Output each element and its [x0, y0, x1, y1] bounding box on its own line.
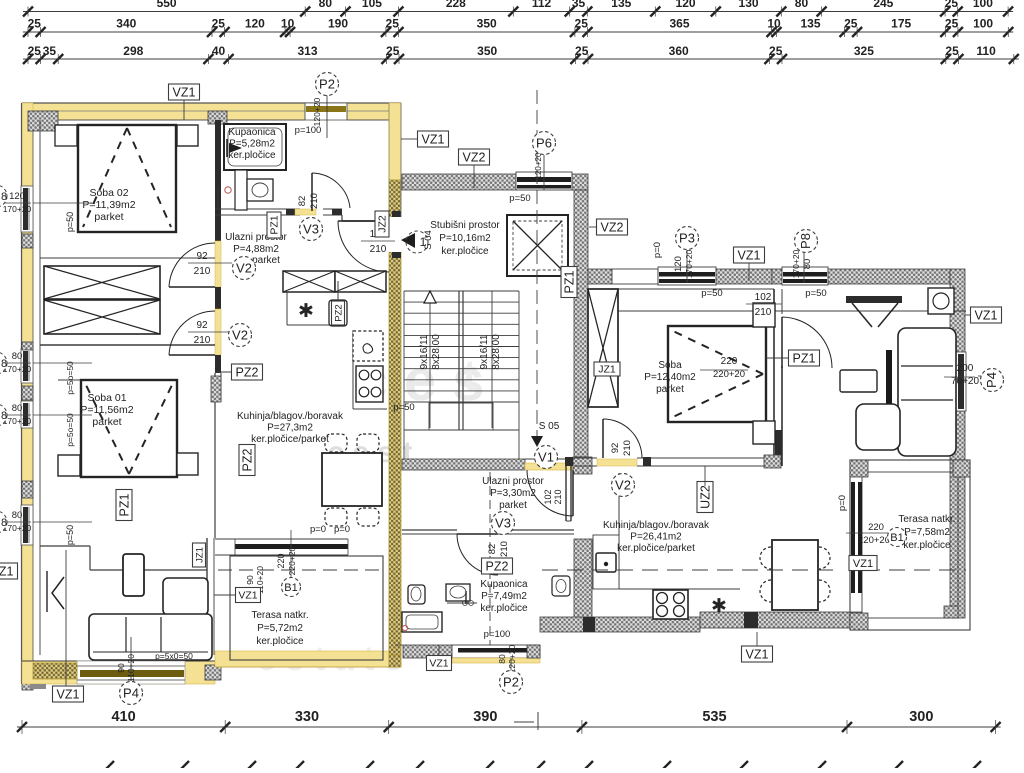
- svg-text:102: 102: [755, 292, 772, 303]
- svg-text:190: 190: [328, 17, 348, 31]
- svg-text:360: 360: [669, 44, 689, 58]
- svg-text:ker.pločice/parket: ker.pločice/parket: [251, 434, 329, 445]
- svg-text:210: 210: [370, 244, 387, 255]
- svg-text:120+20: 120+20: [312, 97, 322, 126]
- svg-text:VZ2: VZ2: [601, 220, 624, 234]
- svg-text:9x16/11: 9x16/11: [419, 334, 430, 369]
- svg-text:P=5,28m2: P=5,28m2: [229, 139, 275, 150]
- svg-text:135: 135: [800, 17, 820, 31]
- svg-text:VZ1: VZ1: [238, 590, 257, 602]
- svg-text:112: 112: [532, 0, 552, 10]
- svg-text:100: 100: [973, 0, 993, 10]
- svg-text:Kuhinja/blagov./boravak: Kuhinja/blagov./boravak: [603, 520, 710, 531]
- svg-text:8x28,00: 8x28,00: [491, 334, 502, 370]
- svg-text:JZ1: JZ1: [598, 364, 616, 376]
- svg-text:8: 8: [1, 191, 7, 203]
- svg-text:90: 90: [116, 663, 126, 673]
- svg-text:Soba: Soba: [658, 360, 682, 371]
- svg-text:8: 8: [1, 410, 7, 422]
- svg-text:8: 8: [1, 358, 7, 370]
- svg-text:ker.pločice: ker.pločice: [903, 540, 951, 551]
- svg-text:parket: parket: [92, 416, 121, 428]
- svg-text:130: 130: [739, 0, 759, 10]
- svg-text:P=12,40m2: P=12,40m2: [644, 372, 696, 383]
- svg-text:210: 210: [194, 266, 211, 277]
- svg-text:Terasa natkr.: Terasa natkr.: [898, 514, 955, 525]
- svg-text:120: 120: [673, 256, 684, 272]
- svg-text:t: t: [463, 351, 478, 400]
- svg-text:92: 92: [196, 320, 208, 331]
- svg-text:170+20: 170+20: [791, 249, 801, 278]
- svg-text:P2: P2: [319, 77, 335, 92]
- svg-text:350: 350: [477, 44, 497, 58]
- svg-text:120+20: 120+20: [507, 644, 517, 673]
- svg-text:PZ1: PZ1: [269, 215, 281, 234]
- svg-text:P4: P4: [123, 686, 139, 701]
- svg-text:V2: V2: [232, 328, 248, 343]
- svg-text:228: 228: [446, 0, 466, 10]
- svg-text:P=4,88m2: P=4,88m2: [233, 244, 279, 255]
- svg-text:82: 82: [297, 196, 308, 207]
- svg-text:120: 120: [676, 0, 696, 10]
- svg-text:P=3,30m2: P=3,30m2: [490, 488, 536, 499]
- svg-text:VZ1: VZ1: [57, 687, 80, 701]
- svg-text:8x28,00: 8x28,00: [431, 334, 442, 370]
- svg-text:298: 298: [123, 44, 143, 58]
- svg-text:100: 100: [973, 17, 993, 31]
- svg-text:25: 25: [212, 17, 226, 31]
- svg-text:80: 80: [497, 654, 507, 664]
- svg-text:390: 390: [473, 709, 497, 725]
- svg-text:210: 210: [553, 489, 563, 504]
- svg-text:parket: parket: [499, 500, 527, 511]
- svg-text:P=5,72m2: P=5,72m2: [257, 623, 303, 634]
- svg-text:90: 90: [245, 575, 255, 585]
- svg-text:Stubišni prostor: Stubišni prostor: [430, 220, 500, 231]
- svg-text:Kupaonica: Kupaonica: [480, 579, 528, 590]
- svg-text:ker.pločice: ker.pločice: [441, 246, 489, 257]
- svg-text:P2: P2: [503, 675, 519, 690]
- svg-text:35: 35: [572, 0, 586, 10]
- svg-text:VZ1: VZ1: [738, 248, 761, 262]
- svg-text:P=7,58m2: P=7,58m2: [904, 527, 950, 538]
- svg-text:✱: ✱: [298, 301, 314, 322]
- svg-text:120: 120: [9, 191, 25, 202]
- svg-text:35: 35: [43, 44, 57, 58]
- svg-text:ker.pločice: ker.pločice: [480, 603, 528, 614]
- svg-text:P=26,41m2: P=26,41m2: [630, 532, 682, 543]
- svg-text:✱: ✱: [711, 596, 727, 617]
- svg-text:170+20: 170+20: [3, 204, 32, 214]
- svg-text:220: 220: [276, 553, 286, 568]
- svg-text:p=50: p=50: [509, 193, 530, 204]
- svg-text:P=7,49m2: P=7,49m2: [481, 591, 527, 602]
- svg-text:25: 25: [386, 44, 400, 58]
- svg-text:PZ2: PZ2: [240, 448, 254, 471]
- svg-text:P=11,39m2: P=11,39m2: [82, 199, 135, 211]
- svg-text:P=27,3m2: P=27,3m2: [267, 423, 313, 434]
- svg-text:B1: B1: [284, 582, 297, 594]
- svg-text:10: 10: [767, 17, 781, 31]
- svg-text:Kupaonica: Kupaonica: [228, 127, 276, 138]
- svg-text:200: 200: [957, 363, 974, 374]
- svg-text:V3: V3: [303, 222, 319, 237]
- svg-text:VZ1: VZ1: [173, 85, 196, 99]
- svg-text:210: 210: [755, 307, 772, 318]
- svg-text:8: 8: [1, 517, 7, 529]
- svg-text:PZ2: PZ2: [486, 559, 509, 573]
- svg-text:Kuhinja/blagov./boravak: Kuhinja/blagov./boravak: [237, 411, 344, 422]
- svg-text:p=0: p=0: [334, 524, 350, 535]
- svg-text:80: 80: [319, 0, 333, 10]
- svg-text:P4: P4: [984, 372, 999, 388]
- svg-text:210: 210: [499, 541, 510, 557]
- svg-text:25: 25: [945, 17, 959, 31]
- svg-text:PZ2: PZ2: [333, 304, 344, 321]
- svg-text:VZ1: VZ1: [0, 564, 14, 578]
- svg-text:p=5o=50: p=5o=50: [65, 361, 75, 395]
- svg-text:S 05: S 05: [539, 421, 560, 432]
- svg-text:JZ2: JZ2: [377, 215, 389, 233]
- svg-text:25: 25: [575, 44, 589, 58]
- svg-text:40: 40: [212, 44, 226, 58]
- svg-text:parket: parket: [94, 211, 123, 223]
- svg-text:10: 10: [281, 17, 295, 31]
- svg-text:V1: V1: [538, 450, 554, 465]
- svg-text:S 04: S 04: [423, 230, 434, 250]
- svg-text:VZ1: VZ1: [853, 558, 873, 570]
- svg-text:ker.pločice: ker.pločice: [228, 150, 276, 161]
- svg-text:110: 110: [976, 44, 996, 58]
- svg-text:70+20: 70+20: [951, 376, 980, 387]
- svg-text:550: 550: [157, 0, 177, 10]
- svg-text:VZ1: VZ1: [422, 132, 445, 146]
- svg-text:102: 102: [543, 489, 553, 504]
- svg-text:220: 220: [721, 356, 738, 367]
- svg-text:25: 25: [769, 44, 783, 58]
- svg-text:365: 365: [669, 17, 689, 31]
- svg-text:Terasa natkr.: Terasa natkr.: [251, 610, 308, 621]
- svg-text:80: 80: [12, 351, 23, 362]
- svg-text:80: 80: [12, 510, 23, 521]
- svg-text:P6: P6: [536, 136, 552, 151]
- svg-text:p=50: p=50: [701, 288, 722, 299]
- svg-text:PZ1: PZ1: [562, 270, 576, 293]
- svg-text:p=5o=50: p=5o=50: [65, 413, 75, 447]
- svg-text:ker.pločice/parket: ker.pločice/parket: [617, 543, 695, 554]
- svg-text:P=11,56m2: P=11,56m2: [80, 404, 133, 416]
- svg-text:VZ1: VZ1: [746, 647, 769, 661]
- svg-text:VZ2: VZ2: [463, 150, 486, 164]
- svg-text:p=100: p=100: [484, 629, 511, 640]
- svg-text:82: 82: [487, 544, 498, 555]
- svg-text:P8: P8: [798, 233, 813, 249]
- svg-text:p=0: p=0: [652, 242, 663, 258]
- svg-text:p=50: p=50: [65, 525, 75, 545]
- svg-text:p=50: p=50: [805, 288, 826, 299]
- svg-text:330: 330: [295, 709, 319, 725]
- svg-text:V2: V2: [615, 478, 631, 493]
- svg-text:535: 535: [702, 709, 726, 725]
- svg-text:245: 245: [873, 0, 893, 10]
- svg-text:25: 25: [575, 17, 589, 31]
- svg-text:120+20: 120+20: [534, 152, 543, 179]
- svg-text:105: 105: [362, 0, 382, 10]
- svg-text:92: 92: [610, 443, 621, 454]
- svg-text:25: 25: [386, 17, 400, 31]
- svg-text:P3: P3: [679, 231, 695, 246]
- svg-text:VZ1: VZ1: [429, 658, 448, 670]
- svg-text:p=50: p=50: [393, 402, 414, 413]
- svg-text:210: 210: [622, 440, 633, 456]
- svg-text:V2: V2: [236, 261, 252, 276]
- svg-text:210: 210: [309, 193, 320, 209]
- svg-text:VZ1: VZ1: [975, 308, 998, 322]
- svg-text:210: 210: [194, 335, 211, 346]
- svg-text:Soba 02: Soba 02: [89, 187, 128, 199]
- svg-text:25: 25: [945, 0, 959, 10]
- svg-text:313: 313: [297, 44, 317, 58]
- svg-text:B1: B1: [890, 532, 903, 544]
- svg-text:JZ1: JZ1: [194, 547, 205, 563]
- svg-text:PZ2: PZ2: [236, 365, 259, 379]
- svg-text:25: 25: [945, 44, 959, 58]
- svg-text:350: 350: [477, 17, 497, 31]
- svg-text:parket: parket: [656, 384, 684, 395]
- svg-text:9x16/11: 9x16/11: [479, 334, 490, 369]
- svg-text:220+20: 220+20: [858, 535, 890, 546]
- svg-text:92: 92: [196, 251, 208, 262]
- svg-text:220+20: 220+20: [713, 369, 745, 380]
- svg-text:p=0: p=0: [837, 495, 848, 511]
- svg-text:300: 300: [909, 709, 933, 725]
- svg-text:410: 410: [111, 709, 135, 725]
- svg-text:PZ1: PZ1: [117, 493, 131, 516]
- svg-text:170+20: 170+20: [684, 249, 694, 278]
- svg-text:UZ2: UZ2: [698, 485, 712, 509]
- svg-text:p=0: p=0: [310, 524, 326, 535]
- svg-text:80: 80: [795, 0, 809, 10]
- svg-text:25: 25: [844, 17, 858, 31]
- svg-text:PZ1: PZ1: [793, 351, 816, 365]
- svg-text:ker.pločice: ker.pločice: [256, 636, 304, 647]
- svg-text:25: 25: [28, 44, 42, 58]
- svg-text:325: 325: [854, 44, 874, 58]
- svg-text:parket: parket: [252, 255, 280, 266]
- svg-text:p=5x0=50: p=5x0=50: [155, 651, 193, 661]
- svg-text:Ulazni prostor: Ulazni prostor: [482, 476, 544, 487]
- svg-text:120: 120: [245, 17, 265, 31]
- svg-text:175: 175: [891, 17, 911, 31]
- svg-text:135: 135: [611, 0, 631, 10]
- svg-text:25: 25: [28, 17, 42, 31]
- svg-text:220: 220: [868, 522, 884, 533]
- svg-text:340: 340: [116, 17, 136, 31]
- svg-text:Soba 01: Soba 01: [87, 392, 126, 404]
- svg-text:P=10,16m2: P=10,16m2: [439, 233, 491, 244]
- svg-text:p=50: p=50: [65, 212, 75, 232]
- svg-text:220+20: 220+20: [287, 546, 297, 575]
- svg-text:V3: V3: [495, 516, 511, 531]
- svg-text:80: 80: [12, 403, 23, 414]
